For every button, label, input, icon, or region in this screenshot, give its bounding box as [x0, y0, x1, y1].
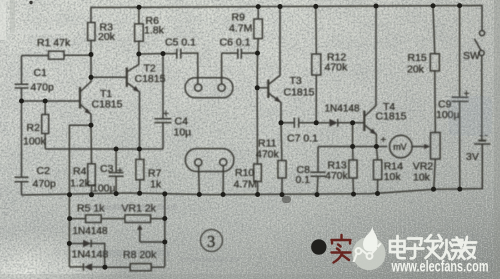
- diode D2 1N4148: [69, 263, 105, 271]
- capacitor C8: [310, 147, 325, 195]
- svg-text:C5 0.1: C5 0.1: [165, 37, 196, 49]
- resonator element upper: [185, 53, 233, 98]
- transistor T3: [257, 7, 281, 123]
- figure number 3 circle: [201, 230, 223, 252]
- svg-text:mV: mV: [393, 142, 407, 152]
- resistor R10: [254, 164, 262, 195]
- transistor T1: [80, 87, 91, 125]
- junction dots T1 base wire: [19, 99, 48, 104]
- watermark text dian zi fa shao you: [390, 235, 476, 259]
- resistor R2: [42, 101, 49, 149]
- svg-text:C2: C2: [37, 165, 51, 177]
- svg-text:470k: 470k: [325, 170, 349, 182]
- resistor R5: [86, 215, 102, 223]
- wire R2 bottom row: [45, 148, 163, 150]
- wire left column: [21, 56, 23, 196]
- svg-text:1.2k: 1.2k: [70, 178, 91, 190]
- svg-text:1.8k: 1.8k: [144, 25, 165, 37]
- svg-text:1k: 1k: [150, 179, 162, 191]
- capacitor C7: [281, 118, 316, 128]
- capacitor C3: [109, 149, 124, 194]
- svg-text:i l l: i l l: [1, 125, 11, 136]
- watermark logo disc: [352, 225, 385, 271]
- resistor R4: [88, 125, 96, 195]
- resistor R14: [374, 147, 382, 194]
- svg-text:R4: R4: [73, 166, 87, 178]
- svg-text:C3: C3: [100, 163, 114, 175]
- svg-text:100k: 100k: [23, 136, 47, 148]
- wire T1 emitter left branch: [69, 125, 91, 267]
- svg-text:www.elecfans.com: www.elecfans.com: [391, 259, 489, 276]
- wire R9 node column: [256, 53, 258, 164]
- capacitor C5: [177, 49, 198, 84]
- capacitor C2: [15, 177, 29, 182]
- transistor T2: [127, 54, 140, 149]
- diode D1 1N4148: [69, 240, 104, 268]
- wire T2 collector row: [139, 53, 177, 55]
- capacitor C6: [222, 49, 258, 59]
- svg-text:C1815: C1815: [284, 86, 315, 98]
- resistor R15: [430, 6, 439, 71]
- resistor R8: [105, 264, 165, 271]
- junction dot T3 base node: [255, 85, 260, 90]
- svg-text:t l: t l: [1, 54, 11, 61]
- resistor R7: [136, 149, 144, 193]
- svg-text:1N4148: 1N4148: [325, 104, 360, 115]
- svg-text:4.7M: 4.7M: [234, 178, 257, 190]
- junction dot T1 collector node: [89, 75, 94, 80]
- svg-text:T3: T3: [290, 75, 302, 87]
- svg-text:R1 47k: R1 47k: [37, 37, 71, 49]
- svg-text:C7 0.1: C7 0.1: [287, 133, 318, 145]
- junction dots on ground rail: [67, 187, 462, 198]
- resistor R11: [278, 123, 286, 195]
- svg-text:C1815: C1815: [376, 111, 407, 123]
- capacitor C1: [15, 84, 29, 88]
- transistor T4: [364, 6, 376, 146]
- svg-text:470k: 470k: [256, 148, 280, 160]
- resistor R9: [254, 7, 263, 54]
- junction dots row y54 (R3/R1 node, R6/T2 node, C4 tap, R9/C6 node): [89, 51, 261, 57]
- scan artifacts: [1, 54, 492, 262]
- svg-text:ll t i: ll t i: [1, 202, 11, 216]
- svg-text:R15: R15: [408, 52, 427, 64]
- capacitor C4: [155, 54, 172, 149]
- svg-text:R2: R2: [27, 122, 41, 134]
- diode D3 1N4148: [316, 119, 364, 127]
- svg-text:4.7M: 4.7M: [229, 23, 252, 35]
- glyph shao: [440, 240, 452, 259]
- meter mV: [381, 135, 413, 158]
- svg-text:470k: 470k: [325, 62, 349, 74]
- svg-text:R10: R10: [235, 167, 254, 179]
- svg-text:10µ: 10µ: [174, 127, 192, 139]
- svg-text:100µ: 100µ: [92, 183, 116, 195]
- top rail wire: [91, 6, 482, 31]
- potentiometer VR1: [125, 215, 165, 242]
- watermark caption bullet: [311, 239, 326, 254]
- wire emitter row: [318, 146, 387, 148]
- svg-text:470p: 470p: [33, 178, 57, 190]
- caption character shi (dark red): [332, 235, 351, 263]
- resistor R3: [88, 23, 95, 55]
- resistor R6: [135, 7, 144, 54]
- svg-text:10k: 10k: [413, 171, 431, 183]
- wire T1 base: [22, 100, 81, 102]
- junction dots T1 emitter node and C7 diode wire: [89, 120, 356, 127]
- svg-text:0.1: 0.1: [296, 174, 311, 186]
- junction dots T4 emitter wire: [350, 144, 379, 149]
- svg-text:C1: C1: [34, 67, 48, 79]
- potentiometer VR2: [431, 71, 441, 189]
- bottom ground rail wire: [22, 144, 483, 195]
- svg-text:3: 3: [207, 232, 215, 251]
- junction dots on top supply rail: [137, 3, 463, 10]
- glyph you: [459, 237, 476, 259]
- resistor R12: [312, 6, 321, 122]
- svg-text:C1815: C1815: [135, 73, 166, 85]
- resonator element lower: [185, 149, 233, 195]
- svg-text:470p: 470p: [31, 82, 55, 94]
- svg-text:3V: 3V: [466, 151, 479, 163]
- wire T1 collector to T2 base: [81, 55, 127, 92]
- junction dots R2 bottom wire: [114, 147, 142, 152]
- battery 3V: [474, 136, 490, 189]
- svg-text:1N4148: 1N4148: [73, 226, 108, 237]
- wire base-emitter link: [352, 123, 354, 147]
- svg-text:20k: 20k: [407, 64, 425, 76]
- resistor R13: [349, 147, 357, 195]
- svg-text:C6 0.1: C6 0.1: [220, 37, 251, 49]
- junction dots diode wires and wiper tap: [67, 240, 168, 270]
- svg-text:SW: SW: [463, 50, 480, 62]
- junction dots R5/VR1 wire: [67, 216, 167, 221]
- capacitor C9: [452, 6, 470, 190]
- svg-text:10k: 10k: [384, 171, 402, 183]
- resistor R1: [22, 51, 92, 59]
- glyph fa: [425, 235, 442, 259]
- wire R5 VR1 row: [70, 195, 165, 267]
- svg-text:20k: 20k: [98, 31, 116, 43]
- svg-text:C1815: C1815: [92, 99, 123, 111]
- wiper arrow to VR2: [412, 144, 430, 149]
- switch SW: [474, 30, 484, 140]
- glyph dian: [390, 236, 405, 258]
- glyph zi: [407, 239, 424, 259]
